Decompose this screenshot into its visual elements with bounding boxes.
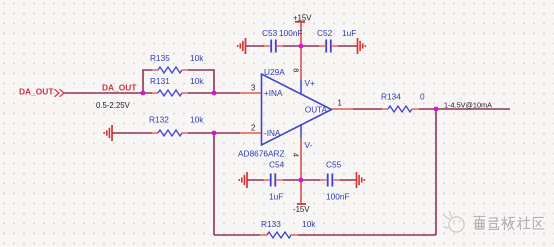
wire C54 to node F bbox=[283, 179, 301, 181]
svg-text:3: 3 bbox=[251, 84, 255, 93]
watermark logo bbox=[444, 211, 465, 232]
capacitor C52 bbox=[317, 28, 356, 53]
svg-text:V-: V- bbox=[305, 141, 313, 150]
wire input DA_OUT to node A bbox=[64, 92, 152, 94]
resistor R134 bbox=[381, 92, 425, 113]
svg-text:1uF: 1uF bbox=[342, 28, 356, 38]
wire R134 to node E bbox=[419, 108, 436, 110]
svg-text:10k: 10k bbox=[190, 115, 204, 125]
wire R133 to riser right bbox=[298, 234, 436, 236]
svg-text:1-4.5V@10mA: 1-4.5V@10mA bbox=[444, 101, 492, 110]
svg-text:-INA: -INA bbox=[264, 129, 281, 138]
wire R132 to node C bbox=[188, 132, 240, 134]
wire +15V to V+ bbox=[300, 46, 302, 80]
svg-text:+INA: +INA bbox=[264, 89, 283, 98]
svg-text:R131: R131 bbox=[150, 76, 170, 86]
node B junction bbox=[212, 91, 217, 96]
power +15V bbox=[293, 14, 312, 47]
node E junction bbox=[434, 107, 439, 112]
svg-text:2: 2 bbox=[251, 124, 255, 133]
svg-text:AD8676ARZ: AD8676ARZ bbox=[238, 149, 285, 159]
wire to R134 bbox=[353, 108, 382, 110]
svg-text:C53: C53 bbox=[262, 28, 278, 38]
op-amp U29A bbox=[238, 67, 332, 159]
svg-text:8: 8 bbox=[292, 68, 301, 72]
svg-text:DA_OUT: DA_OUT bbox=[102, 83, 137, 93]
pin 1 stub bbox=[332, 108, 353, 110]
svg-text:1: 1 bbox=[338, 99, 342, 108]
pin 2 stub bbox=[240, 132, 261, 134]
wire feedback riser left bbox=[213, 133, 215, 235]
wire node F to C55 bbox=[301, 179, 320, 181]
power -15V bbox=[293, 180, 310, 214]
svg-text:-15V: -15V bbox=[293, 205, 310, 214]
ground for R132 bbox=[104, 125, 112, 141]
svg-text:OUTA: OUTA bbox=[305, 106, 328, 115]
wire top branch right bbox=[188, 70, 214, 93]
svg-text:C52: C52 bbox=[317, 28, 333, 38]
svg-text:0.5-2.25V: 0.5-2.25V bbox=[96, 101, 131, 110]
svg-text:U29A: U29A bbox=[264, 67, 285, 77]
wire node D to C52 bbox=[301, 45, 319, 47]
resistor R132 bbox=[149, 115, 204, 137]
wire feedback bottom to R133 bbox=[214, 234, 260, 236]
wire feedback riser right bbox=[435, 109, 437, 235]
node F junction bbox=[299, 178, 304, 183]
wire C53 to node D bbox=[283, 45, 301, 47]
svg-text:100nF: 100nF bbox=[326, 192, 350, 202]
ground top-right bbox=[358, 38, 366, 54]
node A junction bbox=[141, 91, 146, 96]
svg-text:R134: R134 bbox=[381, 92, 401, 102]
ground bottom-left bbox=[239, 172, 247, 188]
svg-text:DA_OUT: DA_OUT bbox=[19, 87, 54, 97]
node C junction bbox=[212, 131, 217, 136]
wire V- to node F bbox=[300, 138, 302, 180]
wire ground to C54 bbox=[248, 179, 265, 181]
V+ pin wire bbox=[300, 80, 302, 94]
pin 3 stub bbox=[240, 92, 261, 94]
resistor R135 bbox=[150, 53, 204, 73]
svg-text:10k: 10k bbox=[190, 53, 204, 63]
node D junction bbox=[299, 44, 304, 49]
svg-text:C55: C55 bbox=[326, 160, 342, 170]
svg-text:1uF: 1uF bbox=[269, 192, 283, 202]
svg-text:R133: R133 bbox=[261, 219, 281, 229]
wire output right bbox=[436, 108, 510, 110]
svg-text:10k: 10k bbox=[302, 219, 316, 229]
wire C55 to ground bbox=[340, 179, 357, 181]
wire R131 to node B bbox=[188, 92, 240, 94]
svg-text:10k: 10k bbox=[190, 76, 204, 86]
svg-text:R135: R135 bbox=[150, 53, 170, 63]
svg-text:C54: C54 bbox=[269, 160, 285, 170]
capacitor C54 bbox=[264, 160, 285, 202]
capacitor C53 bbox=[262, 28, 303, 53]
wire ground to C53 bbox=[246, 45, 264, 47]
wire ground to R132 bbox=[112, 132, 152, 134]
capacitor C55 bbox=[320, 160, 350, 202]
svg-text:0: 0 bbox=[420, 92, 425, 102]
wire riser left of R135 bbox=[143, 70, 152, 93]
ground bottom-right bbox=[357, 172, 365, 188]
port DA_OUT bbox=[19, 87, 64, 97]
svg-text:R132: R132 bbox=[149, 115, 169, 125]
V- pin wire bbox=[300, 124, 302, 138]
svg-text:100nF: 100nF bbox=[279, 28, 303, 38]
resistor R133 bbox=[260, 219, 316, 238]
resistor R131 bbox=[150, 76, 204, 96]
watermark text bbox=[474, 217, 545, 231]
wire C52 to ground bbox=[338, 45, 357, 47]
ground top-left bbox=[238, 38, 246, 54]
svg-text:V+: V+ bbox=[305, 79, 315, 88]
svg-text:4: 4 bbox=[292, 153, 301, 157]
